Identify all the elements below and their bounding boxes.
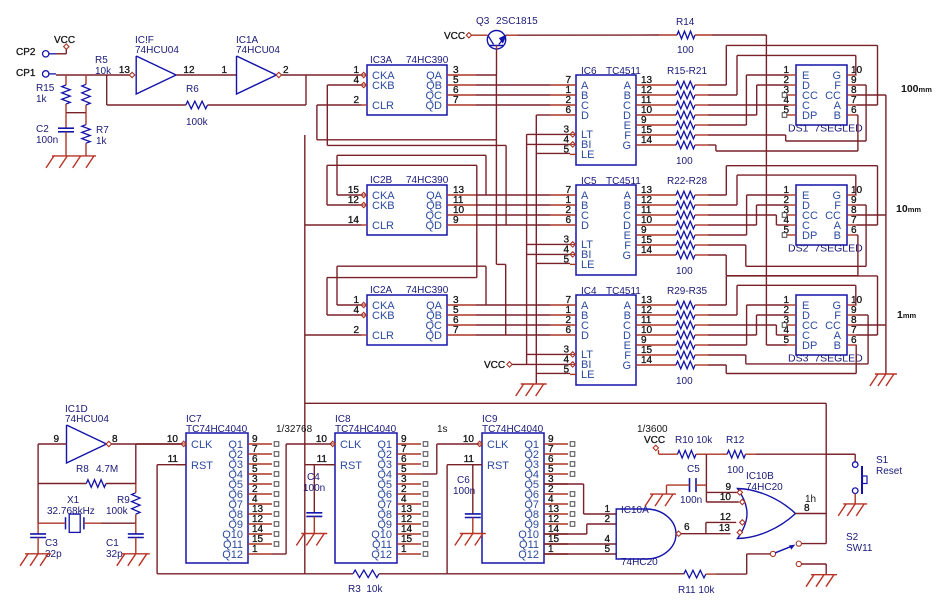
- label 1mm: [897, 309, 917, 321]
- DS2 left pin 3: [787, 214, 797, 216]
- svg-text:DP: DP: [802, 230, 817, 242]
- svg-text:100k: 100k: [186, 117, 209, 128]
- svg-text:1: 1: [252, 544, 258, 555]
- wire LE IC4: [536, 372, 570, 374]
- svg-text:C1: C1: [106, 538, 119, 549]
- resistor R10: [659, 450, 707, 458]
- DS2 lnum 1: [783, 185, 789, 196]
- IC3A pin names: [372, 70, 443, 112]
- wire segC DS1: [708, 104, 787, 106]
- svg-text:R15-R21: R15-R21: [667, 66, 707, 77]
- wire LT IC6: [527, 133, 570, 135]
- display DS1: [796, 65, 847, 125]
- svg-text:Reset: Reset: [876, 466, 902, 477]
- svg-text:100: 100: [676, 376, 693, 387]
- label R22-R28: [667, 176, 707, 187]
- svg-text:100k: 100k: [106, 506, 129, 517]
- DS2 rnum 10: [851, 185, 863, 196]
- DS2 right pin 9: [847, 204, 857, 206]
- wire segD DS2: [708, 205, 787, 225]
- DS1 left pin 1: [787, 74, 797, 76]
- IC4 out C: [636, 324, 676, 326]
- wire IC1D out to IC7 CLK: [136, 443, 182, 445]
- svg-text:CKB: CKB: [372, 310, 395, 322]
- wire R14 to DS3 DP: [712, 35, 787, 345]
- svg-text:VCC: VCC: [644, 435, 665, 446]
- label DS1: [788, 123, 863, 135]
- svg-text:RST: RST: [191, 460, 213, 472]
- DS1 right pin 10: [847, 74, 857, 76]
- svg-text:CP2: CP2: [16, 47, 36, 58]
- IC6 out num 2: [641, 95, 652, 106]
- svg-text:R7: R7: [96, 125, 109, 136]
- IC2A pin QD: [447, 334, 476, 336]
- label S2: [846, 532, 859, 543]
- IC6 out num 4: [641, 115, 647, 126]
- power VCC IC4: [507, 362, 512, 367]
- transistor Q3: [487, 31, 506, 49]
- wire CP2 to VCC: [56, 49, 66, 54]
- IC8 out numbers: [401, 434, 413, 555]
- wire QA IC2B row to A IC5: [476, 194, 550, 196]
- IC3A pin CKA: [361, 72, 367, 77]
- DS3 left pin 1: [787, 304, 797, 306]
- IC7 out names: [222, 439, 243, 561]
- IC2B pin names: [372, 190, 443, 232]
- IC7 pin CLK: [181, 441, 186, 446]
- svg-text:74HCU04: 74HCU04: [236, 45, 280, 56]
- IC6 out G: [636, 144, 676, 146]
- svg-text:LE: LE: [581, 149, 594, 161]
- IC6 out num 0: [641, 75, 653, 86]
- port CP2: [43, 51, 57, 57]
- svg-text:6: 6: [851, 225, 857, 236]
- IC2A pin CKB: [361, 312, 367, 317]
- IC3A right pin numbers: [453, 65, 459, 106]
- wire VCC LT BI net: [526, 134, 528, 364]
- DS1 right pin 6: [847, 114, 857, 116]
- pin 8: [112, 434, 118, 445]
- svg-text:100n: 100n: [680, 495, 702, 506]
- net label 1s: [437, 424, 448, 435]
- IC3A pin QD: [447, 104, 476, 106]
- DS2 lnum 3: [783, 205, 789, 216]
- wire segE DS3: [708, 305, 787, 345]
- IC3A pin CKB: [361, 82, 367, 87]
- DS2 rnum 6: [851, 225, 857, 236]
- IC5 out num 6: [641, 245, 653, 256]
- IC2B pin QA: [447, 194, 476, 196]
- ground C3: [20, 554, 51, 566]
- svg-text:10k: 10k: [95, 66, 112, 77]
- svg-text:CLK: CLK: [191, 439, 213, 451]
- ground S2: [806, 575, 837, 587]
- IC6 pin num in 3: [565, 105, 571, 116]
- svg-text:R12: R12: [726, 435, 745, 446]
- svg-text:1: 1: [401, 544, 407, 555]
- wire IC8 RST: [305, 464, 335, 466]
- svg-text:10mm: 10mm: [896, 203, 921, 215]
- wire QB IC2B to B IC5: [476, 204, 550, 206]
- IC6 out names: [622, 80, 631, 152]
- wire to R14: [517, 34, 659, 36]
- ground input: [46, 156, 96, 168]
- label R8 4.7M: [76, 464, 118, 475]
- resistor R8: [38, 480, 136, 488]
- IC5 out num 3: [641, 215, 653, 226]
- IC4 pin A in: [550, 304, 576, 306]
- DS2 lnum 5: [783, 225, 789, 236]
- IC4 out B: [636, 314, 676, 316]
- IC5 LT num: [563, 234, 569, 245]
- svg-text:LE: LE: [581, 259, 594, 271]
- IC2A pin CLR: [362, 334, 367, 336]
- svg-text:100: 100: [677, 45, 694, 56]
- DS2 right pin 7: [847, 224, 857, 226]
- label R14: [676, 17, 695, 28]
- IC6 out B: [636, 94, 676, 96]
- wire segA DS1: [708, 45, 878, 105]
- label R29-R35 value: [676, 376, 693, 387]
- IC5 pin B in: [550, 204, 576, 206]
- svg-text:100: 100: [676, 156, 693, 167]
- IC5 pin num in 1: [565, 195, 571, 206]
- svg-text:C4: C4: [307, 472, 320, 483]
- DS3 left names: [802, 300, 818, 352]
- wire LT IC4: [527, 353, 570, 355]
- IC8 pin names: [340, 439, 362, 472]
- IC4 pin num in 0: [565, 295, 571, 306]
- DS3 right pin 8: [847, 324, 857, 326]
- wire segG DS2: [708, 235, 858, 276]
- DS3 lnum 5: [783, 335, 789, 346]
- svg-text:IC10A: IC10A: [621, 505, 649, 516]
- wire CC bus: [885, 95, 887, 374]
- svg-text:100: 100: [676, 266, 693, 277]
- label 10mm: [896, 203, 921, 215]
- switch S1: [852, 462, 867, 494]
- svg-text:CP1: CP1: [16, 68, 36, 79]
- svg-text:100mm: 100mm: [901, 83, 932, 95]
- decoder IC5: [576, 185, 636, 275]
- IC2B pin CKA: [361, 192, 367, 197]
- IC8 pin CLK: [330, 441, 335, 446]
- svg-text:CLR: CLR: [372, 220, 394, 232]
- label R14 100: [677, 45, 694, 56]
- resistor R14: [659, 31, 712, 39]
- label CP2: [16, 47, 36, 58]
- IC9 CLK num: [463, 434, 475, 445]
- label IC5: [581, 176, 641, 187]
- wire R12 to reset: [756, 453, 856, 455]
- svg-text:D: D: [581, 330, 589, 342]
- ground C1: [117, 554, 150, 566]
- wire segC DS3: [708, 325, 787, 335]
- wire feedback: [107, 75, 306, 105]
- wire QC IC2A to C IC4: [476, 324, 550, 326]
- wire IC9 Q11 to IC10A pin4: [544, 543, 616, 545]
- IC4 LE num: [563, 364, 569, 375]
- wire segC DS2: [708, 215, 787, 225]
- IC4 out E: [636, 344, 676, 346]
- svg-text:100n: 100n: [36, 135, 58, 146]
- DS1 lnum 4: [783, 95, 789, 106]
- svg-text:DP: DP: [802, 110, 817, 122]
- IC6 pin BI: [570, 142, 576, 147]
- label IC6: [581, 66, 641, 77]
- svg-text:R3 10k: R3 10k: [348, 584, 383, 595]
- IC5 pin D in: [550, 224, 576, 226]
- wire bottom rail mid: [379, 573, 684, 575]
- wire segD DS3: [708, 315, 787, 335]
- wire QD IC2B to D IC5: [476, 224, 550, 226]
- label R15-R21 value: [676, 156, 693, 167]
- IC4 out A: [636, 304, 676, 306]
- DS1 right names: [825, 70, 842, 122]
- wire X1 left: [38, 522, 65, 524]
- IC6 out A: [636, 84, 676, 86]
- wire segA DS3: [708, 276, 878, 335]
- IC8 RST num: [317, 454, 328, 465]
- wire CC DS3: [857, 324, 886, 326]
- decoder IC6: [576, 75, 636, 165]
- wire segF DS2: [708, 205, 866, 266]
- pin 2: [283, 65, 289, 76]
- resistor array R29-R35: [676, 301, 708, 369]
- IC9 out numbers: [548, 434, 560, 555]
- DS1 left pin 5: [787, 114, 797, 116]
- IC6 pin num in 2: [565, 95, 571, 106]
- DS3 rnum 6: [851, 335, 857, 346]
- pin 1 IC1A: [221, 65, 227, 76]
- IC2B left pin numbers: [348, 185, 360, 226]
- label R9 100k: [106, 495, 130, 517]
- IC10B out num: [804, 503, 810, 514]
- wire QB IC3A to A IC6: [476, 84, 550, 86]
- svg-text:VCC: VCC: [484, 360, 505, 371]
- DS3 rnum 7: [851, 325, 857, 336]
- DS3 left pin 2: [787, 314, 797, 316]
- svg-text:R22-R28: R22-R28: [667, 176, 707, 187]
- IC6 pin LE: [570, 153, 576, 155]
- svg-text:G: G: [622, 360, 631, 372]
- IC6 pin LT: [570, 132, 576, 137]
- label R29-R35: [667, 286, 707, 297]
- svg-text:1s: 1s: [437, 424, 448, 435]
- IC6 pin C in: [550, 104, 576, 106]
- label IC7: [186, 414, 248, 435]
- wire bottom rail left: [157, 573, 353, 575]
- wire D IC6 from LE net: [536, 115, 550, 153]
- IC2A pin QB: [447, 314, 476, 316]
- svg-text:G: G: [622, 250, 631, 262]
- inverter IC1D: [67, 425, 112, 463]
- capacitor C2: [58, 113, 74, 156]
- wire segD DS1: [708, 85, 787, 115]
- counter IC8: [335, 433, 397, 563]
- svg-text:X1: X1: [67, 495, 80, 506]
- capacitor C5: [667, 478, 707, 494]
- wire C4 drop: [313, 465, 315, 513]
- IC4 input names: [581, 300, 589, 342]
- DS2 rnum 9: [851, 195, 857, 206]
- svg-text:B: B: [834, 110, 841, 122]
- wire CKA IC2A feedback: [337, 266, 486, 305]
- svg-text:11: 11: [317, 454, 328, 465]
- wire S1 to gnd: [854, 494, 856, 504]
- DS3 rnum 8: [851, 315, 857, 326]
- label C3 32p: [45, 538, 62, 560]
- port CP1: [43, 71, 57, 77]
- DS2 left pin 1: [787, 194, 797, 196]
- svg-text:13: 13: [719, 523, 731, 534]
- label IC8: [335, 414, 397, 435]
- svg-text:DS1 7SEGLED: DS1 7SEGLED: [788, 123, 863, 135]
- IC4 LT num: [563, 344, 569, 355]
- IC4 pin num in 1: [565, 305, 571, 316]
- wire CLR net vertical: [304, 135, 306, 574]
- IC2B pin QD: [447, 224, 476, 226]
- svg-text:C6: C6: [457, 475, 470, 486]
- svg-text:CLK: CLK: [487, 439, 509, 451]
- IC5 pin num in 0: [565, 185, 571, 196]
- label IC10A type: [621, 557, 658, 568]
- IC5 pin LE: [570, 263, 576, 265]
- svg-text:74HCU04: 74HCU04: [65, 414, 109, 425]
- IC5 pin BI: [570, 252, 576, 257]
- IC10A pin nums: [604, 504, 610, 555]
- label R5 10k: [95, 55, 112, 77]
- DS2 right pin 8: [847, 214, 857, 216]
- DS2 nc pin5: [782, 233, 787, 238]
- IC3A pin QC: [447, 94, 476, 96]
- wire LE IC6: [536, 152, 570, 154]
- resistor R7: [82, 113, 90, 156]
- wire IC1A out: [282, 74, 362, 76]
- IC6 ctrl names: [581, 129, 594, 161]
- label 100k: [186, 117, 209, 128]
- IC6 out num 3: [641, 105, 653, 116]
- label IC2B: [370, 175, 449, 186]
- svg-text:7: 7: [453, 325, 459, 336]
- capacitor C3: [30, 523, 46, 554]
- IC7 outputs: [248, 442, 279, 554]
- wire pins 9 10 tie: [706, 492, 738, 502]
- IC4 out num 3: [641, 325, 653, 336]
- svg-text:C3: C3: [45, 538, 58, 549]
- wire segG DS3: [708, 345, 857, 374]
- net label 1/32768: [276, 424, 313, 435]
- label IC1D: [65, 404, 109, 425]
- resistor R11: [684, 570, 706, 578]
- wire BI IC5: [527, 253, 570, 255]
- wire CP1 row: [56, 74, 129, 76]
- power VCC R10: [653, 445, 658, 450]
- wire CLR IC3A staircase: [317, 75, 506, 335]
- IC4 pin LT: [570, 352, 576, 357]
- wire segG DS1: [708, 115, 858, 151]
- IC5 pin LT: [570, 242, 576, 247]
- label DS3: [788, 353, 863, 365]
- DS3 nc pin3: [782, 323, 787, 328]
- svg-text:R6: R6: [186, 84, 199, 95]
- label C6 100n: [453, 475, 475, 497]
- DS1 nc pin5: [782, 113, 787, 118]
- capacitor C6: [465, 514, 481, 534]
- svg-text:R15: R15: [36, 83, 55, 94]
- IC7 out numbers: [252, 434, 264, 555]
- label IC10B type: [746, 482, 783, 493]
- IC2B pin QC: [447, 214, 476, 216]
- IC5 out C: [636, 214, 676, 216]
- svg-text:14: 14: [641, 355, 653, 366]
- IC9 RST num: [464, 454, 475, 465]
- wire QD IC3A to C IC6: [476, 104, 550, 106]
- label R7 1k: [96, 125, 109, 147]
- IC5 out E: [636, 234, 676, 236]
- wire IC7 Q12 to IC8 CLK: [272, 444, 330, 554]
- wire X1 right 2: [101, 522, 136, 524]
- IC4 out num 1: [641, 305, 653, 316]
- wire VCC to BI IC4: [512, 363, 570, 365]
- IC10A out num: [684, 522, 690, 533]
- label S1: [876, 455, 889, 466]
- label IC1A: [236, 35, 280, 56]
- IC2A pin QC: [447, 324, 476, 326]
- wire QC IC3A to B IC6: [476, 94, 550, 96]
- IC9 pin RST: [472, 464, 482, 466]
- DS3 left pin 4: [787, 334, 797, 336]
- svg-text:14: 14: [641, 135, 653, 146]
- svg-text:1k: 1k: [36, 94, 48, 105]
- svg-text:2: 2: [604, 514, 610, 525]
- IC5 pin num in 2: [565, 205, 571, 216]
- label VCC R10: [644, 435, 665, 446]
- svg-text:D: D: [581, 220, 589, 232]
- svg-text:1h: 1h: [805, 494, 816, 505]
- IC2A pin QA: [447, 304, 476, 306]
- DS1 lnum 5: [783, 105, 789, 116]
- svg-text:R11 10k: R11 10k: [678, 585, 716, 596]
- inverter IC1A: [237, 56, 282, 94]
- svg-text:6: 6: [565, 325, 571, 336]
- IC5 pin num in 3: [565, 215, 571, 226]
- ground CC bus: [870, 374, 897, 386]
- IC5 out F: [636, 244, 676, 246]
- IC8 outputs: [397, 442, 428, 557]
- svg-text:12: 12: [720, 512, 732, 523]
- label IC9: [482, 414, 544, 435]
- svg-text:5: 5: [604, 544, 610, 555]
- DS1 left pin 4: [787, 104, 797, 106]
- DS3 lnum 1: [783, 295, 789, 306]
- svg-text:B: B: [834, 230, 841, 242]
- IC6 pin num in 0: [565, 75, 571, 86]
- label R10 10k: [675, 435, 713, 446]
- svg-text:CKB: CKB: [372, 80, 395, 92]
- label IC3A: [370, 55, 449, 66]
- wire CC DS1: [857, 94, 886, 96]
- IC7 CLK num: [167, 434, 179, 445]
- svg-text:R5: R5: [95, 55, 108, 66]
- DS3 right pin 7: [847, 334, 857, 336]
- wire IC9 RST: [447, 465, 482, 574]
- IC4 out F: [636, 354, 676, 356]
- wire IC10A out: [681, 522, 736, 533]
- label R3 10k: [348, 584, 383, 595]
- resistor R3: [353, 570, 379, 578]
- svg-text:R14: R14: [676, 17, 695, 28]
